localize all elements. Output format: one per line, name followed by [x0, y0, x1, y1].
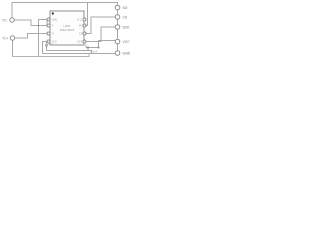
svg-text:N.C.: N.C. [77, 18, 82, 22]
svg-text:MAX 6675: MAX 6675 [60, 28, 74, 32]
wire TC+ down riser [12, 40, 14, 57]
svg-text:T+: T+ [52, 32, 56, 36]
IC pin labels right [77, 18, 83, 44]
wire TC+ to T+ [15, 34, 47, 39]
pin circle N.C. [83, 18, 86, 21]
svg-text:GND: GND [123, 52, 131, 56]
pin circle GND [47, 18, 50, 21]
junction dot VCC riser [98, 47, 100, 49]
pin circle SCK [83, 40, 86, 43]
svg-text:SO: SO [123, 6, 128, 10]
pin circle T- [47, 24, 50, 27]
junction dot TC-/T-/GND [38, 25, 40, 27]
terminal GND [115, 51, 120, 56]
wire SO pin riser [86, 3, 88, 26]
svg-text:100nF: 100nF [90, 50, 98, 54]
svg-text:T-: T- [52, 24, 54, 28]
wire GND pin stub and riser [39, 20, 48, 57]
svg-text:TC+: TC+ [2, 37, 9, 41]
wire mid rail with step [47, 51, 92, 54]
terminal SO [115, 5, 120, 10]
wire TC+ bottom rail [13, 54, 90, 57]
wire right terminal chain SCK-VCC [117, 29, 119, 39]
wire right terminal chain CS-SCK [117, 19, 119, 24]
wire VCC pin stub and riser [43, 42, 48, 54]
wire right terminal chain SO-CS [117, 10, 119, 15]
wire SCK pin to SCK terminal [86, 27, 115, 42]
wire GND bottom rail to GND terminal [43, 53, 116, 55]
svg-text:TC-: TC- [2, 19, 8, 23]
terminal TC+ [10, 36, 14, 40]
wire GND/T- pin bridge [46, 20, 48, 26]
svg-text:SCK: SCK [123, 26, 131, 30]
IC text U101 / MAX 6675 ISA [60, 24, 74, 32]
terminal VCC [115, 39, 120, 44]
terminal CS [115, 15, 120, 20]
pin 1 marker dot [52, 12, 54, 14]
terminal TC- [10, 18, 14, 22]
wire top rail TC- to SO terminal [12, 3, 118, 19]
capacitor C101 plates [45, 44, 48, 46]
svg-text:CS: CS [79, 32, 83, 36]
svg-text:SCK: SCK [77, 40, 83, 44]
wire VCC rail to VCC terminal [86, 41, 115, 48]
IC pin labels left [52, 18, 58, 44]
wire CS pin to CS terminal [86, 17, 115, 34]
capacitor C101 leads [46, 42, 48, 45]
pin circle VCC [47, 40, 50, 43]
pin circle T+ [47, 32, 50, 35]
wire TC- to T-/GND [14, 20, 47, 26]
terminal SCK [115, 25, 120, 30]
pin circle CS [83, 32, 86, 35]
pin circle SO [83, 24, 86, 27]
junction dot C1/VCC rail [87, 47, 89, 49]
svg-text:VCC: VCC [123, 40, 131, 44]
wire right terminal chain VCC-GND [117, 44, 119, 51]
IC U1 MAX6675 body [50, 11, 84, 45]
capacitor C1 upper lead [85, 45, 87, 48]
svg-text:GND: GND [52, 18, 58, 22]
capacitor C1 lower lead [87, 48, 89, 51]
svg-text:CS: CS [123, 16, 128, 20]
svg-text:SO: SO [79, 24, 83, 28]
